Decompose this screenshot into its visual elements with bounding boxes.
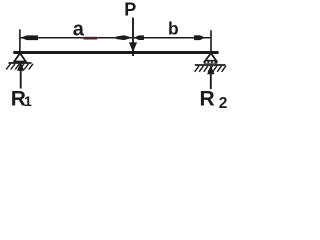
arrowhead a right	[117, 36, 132, 40]
svg-text:P: P	[124, 0, 136, 19]
svg-text:R: R	[200, 88, 215, 111]
ground hatching right	[195, 66, 226, 72]
ground line left	[9, 62, 32, 64]
ground hatching left	[6, 64, 33, 70]
load P arrow	[130, 18, 137, 57]
roller support right triangle	[205, 53, 216, 61]
label R1	[11, 87, 32, 110]
arrowhead b right	[194, 36, 204, 40]
rollers	[204, 61, 218, 64]
dimension line a	[20, 37, 132, 39]
svg-text:1: 1	[24, 93, 32, 109]
extension tick right	[210, 30, 212, 51]
reaction R2 arrow	[208, 66, 214, 89]
svg-text:a: a	[73, 19, 85, 41]
arrowhead a left	[21, 36, 38, 40]
arrowhead b left	[135, 36, 144, 40]
extension tick left	[19, 29, 21, 51]
dimension line b	[134, 37, 211, 39]
label R2	[200, 88, 228, 112]
beam	[13, 51, 218, 54]
pin support left triangle	[14, 53, 26, 61]
dimension line smudge	[84, 37, 98, 40]
svg-text:2: 2	[219, 95, 228, 112]
reaction R1 arrow	[18, 63, 24, 88]
ground line right	[195, 64, 226, 66]
svg-text:b: b	[168, 19, 179, 39]
